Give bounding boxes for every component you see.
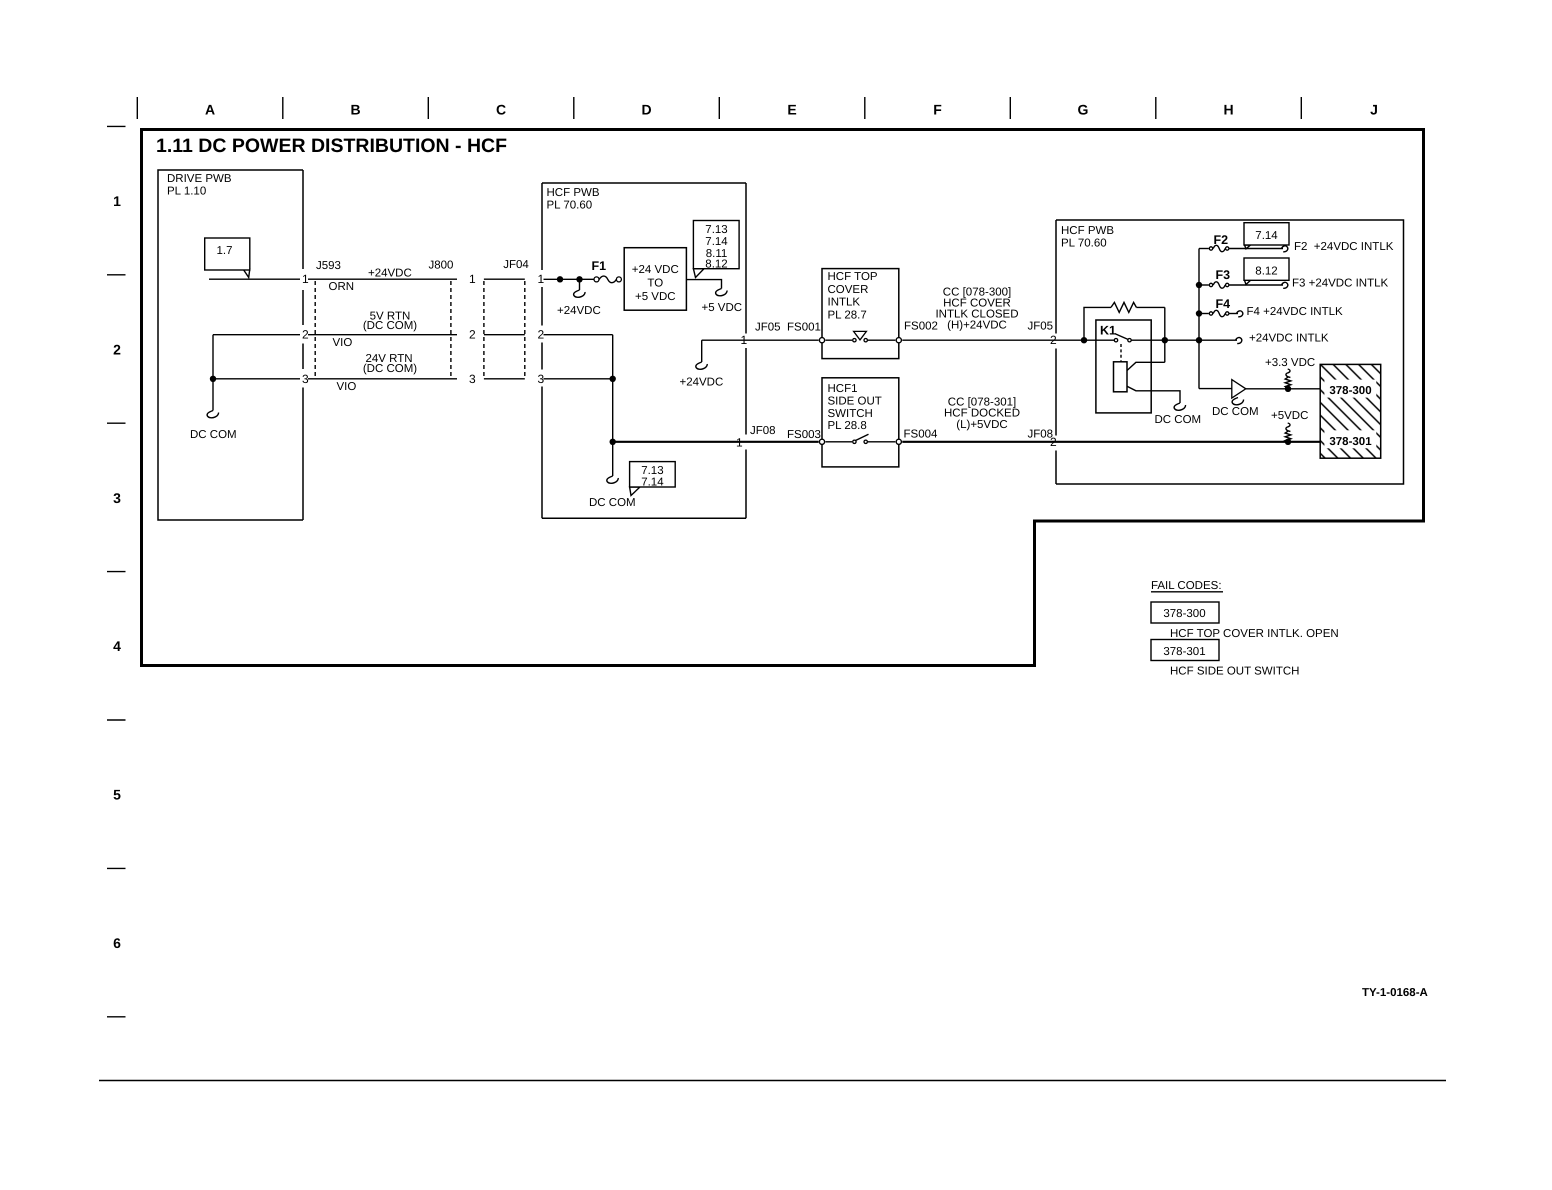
svg-text:1.11 DC POWER DISTRIBUTION - H: 1.11 DC POWER DISTRIBUTION - HCF [156, 135, 507, 157]
interlock switch FS001/FS002 HCF TOP COVER INTLK PL 28.7 [819, 269, 901, 359]
junction JF08 tap [610, 439, 616, 445]
net label CC [078-300] [935, 287, 1018, 332]
svg-text:C: C [496, 102, 506, 118]
svg-text:A: A [205, 102, 215, 118]
svg-text:J593: J593 [316, 260, 341, 272]
svg-text:378-301: 378-301 [1329, 436, 1372, 448]
net label CC [078-301] [944, 396, 1020, 431]
svg-text:B: B [350, 102, 360, 118]
svg-text:1: 1 [113, 193, 121, 209]
svg-text:F: F [933, 102, 942, 118]
svg-text:HCF PWB: HCF PWB [547, 187, 600, 199]
svg-text:F2 +24VDC INTLK: F2 +24VDC INTLK [1294, 241, 1394, 253]
wire 24V RTN VIO harness row 3 [308, 378, 457, 380]
grid ruler (frame) [137, 97, 1301, 119]
svg-text:3: 3 [538, 372, 545, 386]
svg-text:J: J [1370, 102, 1378, 118]
svg-text:ORN: ORN [329, 281, 355, 293]
callout 1.7 [205, 238, 250, 277]
svg-text:HCF SIDE OUT SWITCH: HCF SIDE OUT SWITCH [1170, 666, 1299, 678]
wire JF08-1 output (+5VDC interlock) [613, 441, 819, 443]
svg-text:378-301: 378-301 [1163, 646, 1205, 658]
svg-text:7.13: 7.13 [641, 465, 663, 477]
svg-text:F1: F1 [592, 259, 607, 273]
svg-text:1: 1 [302, 272, 309, 286]
svg-text:TY-1-0168-A: TY-1-0168-A [1362, 987, 1428, 999]
svg-text:PL 70.60: PL 70.60 [547, 200, 593, 212]
relay K1 [1096, 320, 1151, 413]
svg-text:FS002: FS002 [904, 321, 938, 333]
fuse F4 [1199, 297, 1238, 317]
svg-text:G: G [1078, 102, 1089, 118]
svg-text:DC COM: DC COM [1212, 406, 1259, 418]
svg-text:378-300: 378-300 [1329, 385, 1371, 397]
wire resistor loop vertical right [1164, 307, 1166, 362]
svg-text:8.12: 8.12 [1255, 266, 1277, 278]
svg-text:COVER: COVER [828, 284, 869, 296]
destination hook +24VDC INTLK [1236, 338, 1242, 344]
svg-text:4: 4 [113, 638, 121, 654]
junction resistor loop right [1162, 337, 1168, 343]
svg-text:DC COM: DC COM [1155, 414, 1202, 426]
resistor across K1 contact [1084, 302, 1165, 340]
svg-text:+24VDC: +24VDC [557, 305, 601, 317]
svg-text:FS001: FS001 [787, 322, 821, 334]
destination hook F3 [1282, 282, 1288, 288]
callout 8.12 [1244, 258, 1289, 285]
ground DC COM (relay) [1174, 403, 1185, 410]
junction node [557, 276, 563, 282]
svg-text:HCF PWB: HCF PWB [1061, 225, 1114, 237]
hcf pwb board box PL 70.60 (center) [542, 183, 746, 518]
svg-text:JF05: JF05 [755, 322, 781, 334]
svg-text:FS004: FS004 [904, 429, 938, 441]
svg-text:2: 2 [302, 328, 309, 342]
svg-text:HCF TOP COVER INTLK. OPEN: HCF TOP COVER INTLK. OPEN [1170, 628, 1339, 640]
svg-text:(DC COM): (DC COM) [363, 363, 417, 375]
wire JF04-1 to fuse F1 [544, 278, 594, 280]
svg-text:(L)+5VDC: (L)+5VDC [956, 419, 1007, 431]
svg-text:7.14: 7.14 [641, 477, 664, 489]
junction F4 [1196, 310, 1202, 316]
svg-text:3: 3 [113, 490, 121, 506]
junction resistor loop left [1081, 337, 1087, 343]
wire +24VDC INTLK main row [1130, 339, 1238, 341]
svg-text:DC COM: DC COM [190, 429, 237, 441]
source +24VDC (center pwb) [579, 279, 581, 290]
fail codes legend [1151, 580, 1339, 678]
svg-text:E: E [787, 102, 796, 118]
svg-text:F4: F4 [1216, 297, 1231, 311]
wire FS004 to JF08-2 / +5VDC [902, 441, 1320, 443]
wire 24V RTN J593-3 inside drive pwb [213, 378, 300, 380]
wire relay coil lower tap to DC COM [1127, 386, 1180, 403]
svg-text:1: 1 [736, 436, 743, 450]
fail code 378-300 [1151, 602, 1219, 623]
svg-text:2: 2 [1050, 435, 1057, 449]
svg-text:PL 28.8: PL 28.8 [828, 420, 867, 432]
svg-text:+5 VDC: +5 VDC [702, 302, 743, 314]
svg-text:JF04: JF04 [503, 259, 529, 271]
junction drive pwb dc com [210, 376, 216, 382]
junction F3 [1196, 282, 1202, 288]
wire 5V RTN J593-2 inside drive pwb [213, 334, 300, 336]
fuse F1 [592, 259, 622, 283]
svg-text:F3: F3 [1216, 268, 1231, 282]
svg-text:VIO: VIO [333, 337, 353, 349]
wire buffer output to 378-300 [1246, 388, 1320, 390]
svg-text:3: 3 [302, 372, 309, 386]
callout 7.13 7.14 8.11 8.12 [693, 221, 739, 278]
svg-text:CC [078-301]: CC [078-301] [948, 396, 1016, 408]
svg-text:378-300: 378-300 [1163, 608, 1205, 620]
wire JF05-1 output [702, 339, 819, 341]
wire dc com return inside drive pwb [212, 335, 214, 411]
junction +5VDC pull-up [1285, 439, 1291, 445]
svg-text:+24VDC: +24VDC [368, 267, 412, 279]
fail code 378-301 [1151, 640, 1219, 661]
svg-text:1: 1 [741, 333, 748, 347]
svg-text:INTLK: INTLK [828, 297, 861, 309]
docking switch FS003/FS004 HCF1 SIDE OUT SWITCH PL 28.8 [819, 378, 901, 467]
wire FS002 to JF05-2 [902, 339, 1116, 341]
buffer amplifier (fail sense) [1199, 388, 1232, 390]
svg-text:FAIL CODES:: FAIL CODES: [1151, 580, 1222, 592]
wire converter output [686, 280, 721, 289]
destination hook F4 [1237, 311, 1243, 317]
junction fuse bus [1196, 337, 1202, 343]
svg-text:(DC COM): (DC COM) [363, 320, 417, 332]
svg-text:7.13: 7.13 [705, 224, 727, 236]
svg-text:5: 5 [113, 787, 121, 803]
svg-text:+24 VDC: +24 VDC [632, 264, 679, 276]
svg-text:SWITCH: SWITCH [828, 408, 873, 420]
junction +3.3 VDC pull-up [1285, 386, 1291, 392]
svg-text:2: 2 [113, 341, 121, 357]
svg-text:6: 6 [113, 935, 121, 951]
source +24VDC feeding JF05 [701, 340, 703, 362]
source +5 VDC output pigtail [716, 289, 727, 296]
svg-text:+24VDC INTLK: +24VDC INTLK [1249, 333, 1329, 345]
drive pwb board box PL 1.10 [158, 170, 303, 520]
svg-text:F4 +24VDC INTLK: F4 +24VDC INTLK [1247, 306, 1344, 318]
wire +24VDC J593-1 inside drive pwb [209, 278, 300, 280]
svg-text:FS003: FS003 [787, 429, 821, 441]
svg-text:SIDE OUT: SIDE OUT [828, 395, 882, 407]
svg-text:HCF DOCKED: HCF DOCKED [944, 408, 1020, 420]
svg-text:3: 3 [469, 372, 476, 386]
ground DC COM (buffer) [1232, 398, 1243, 405]
wire relay coil upper tap [1127, 362, 1165, 370]
svg-text:HCF TOP: HCF TOP [828, 271, 878, 283]
svg-text:1: 1 [469, 272, 476, 286]
ground DC COM (drive pwb) [207, 411, 218, 418]
wire dc com bus (center pwb) [612, 335, 614, 476]
connector J800 [450, 281, 452, 379]
svg-text:2: 2 [1050, 333, 1057, 347]
svg-text:2: 2 [538, 328, 545, 342]
fuse F3 [1199, 268, 1283, 288]
dc-dc converter +24VDC to +5VDC [624, 248, 686, 311]
svg-text:JF08: JF08 [750, 425, 776, 437]
ground DC COM (center pwb) [607, 476, 618, 483]
junction row3 [610, 376, 616, 382]
svg-text:PL 28.7: PL 28.7 [828, 309, 867, 321]
pull-up resistor +5VDC [1271, 410, 1308, 442]
fail code block 378-300 / 378-301 (hatched) [1320, 364, 1381, 458]
svg-text:JF05: JF05 [1028, 321, 1054, 333]
fuse F2 [1199, 233, 1283, 252]
svg-text:DC COM: DC COM [589, 497, 636, 509]
svg-text:F3 +24VDC INTLK: F3 +24VDC INTLK [1292, 278, 1389, 290]
svg-text:DRIVE PWB: DRIVE PWB [167, 173, 232, 185]
svg-text:J800: J800 [429, 260, 454, 272]
svg-text:8.12: 8.12 [705, 259, 727, 271]
svg-text:+5 VDC: +5 VDC [635, 291, 676, 303]
destination hook F2 [1282, 246, 1288, 252]
svg-text:K1: K1 [1100, 324, 1116, 338]
svg-text:PL 1.10: PL 1.10 [167, 186, 206, 198]
wire +24VDC ORN harness row 1 [308, 278, 457, 280]
svg-text:TO: TO [647, 278, 663, 290]
junction +24VDC tap [576, 276, 582, 282]
wire 5V RTN VIO harness row 2 [308, 334, 457, 336]
svg-text:+5VDC: +5VDC [1271, 410, 1308, 422]
svg-text:PL 70.60: PL 70.60 [1061, 238, 1107, 250]
svg-text:VIO: VIO [337, 381, 357, 393]
svg-text:7.14: 7.14 [705, 236, 728, 248]
svg-text:+24VDC: +24VDC [680, 377, 724, 389]
callout 7.14 [1244, 223, 1289, 249]
pull-up resistor +3.3 VDC [1265, 357, 1315, 388]
connector J593 [314, 281, 316, 379]
svg-text:D: D [641, 102, 651, 118]
svg-text:1.7: 1.7 [217, 245, 233, 257]
svg-text:+3.3 VDC: +3.3 VDC [1265, 357, 1315, 369]
svg-text:HCF1: HCF1 [828, 383, 858, 395]
svg-text:1: 1 [538, 272, 545, 286]
svg-text:7.14: 7.14 [1255, 230, 1278, 242]
svg-text:2: 2 [469, 328, 476, 342]
svg-text:H: H [1223, 102, 1233, 118]
fuse bus vertical [1198, 249, 1200, 389]
callout 7.13 7.14 [630, 462, 676, 496]
connector JF04 [483, 281, 485, 379]
hcf pwb board box PL 70.60 (right) [1056, 220, 1404, 484]
svg-text:(H)+24VDC: (H)+24VDC [947, 320, 1007, 332]
